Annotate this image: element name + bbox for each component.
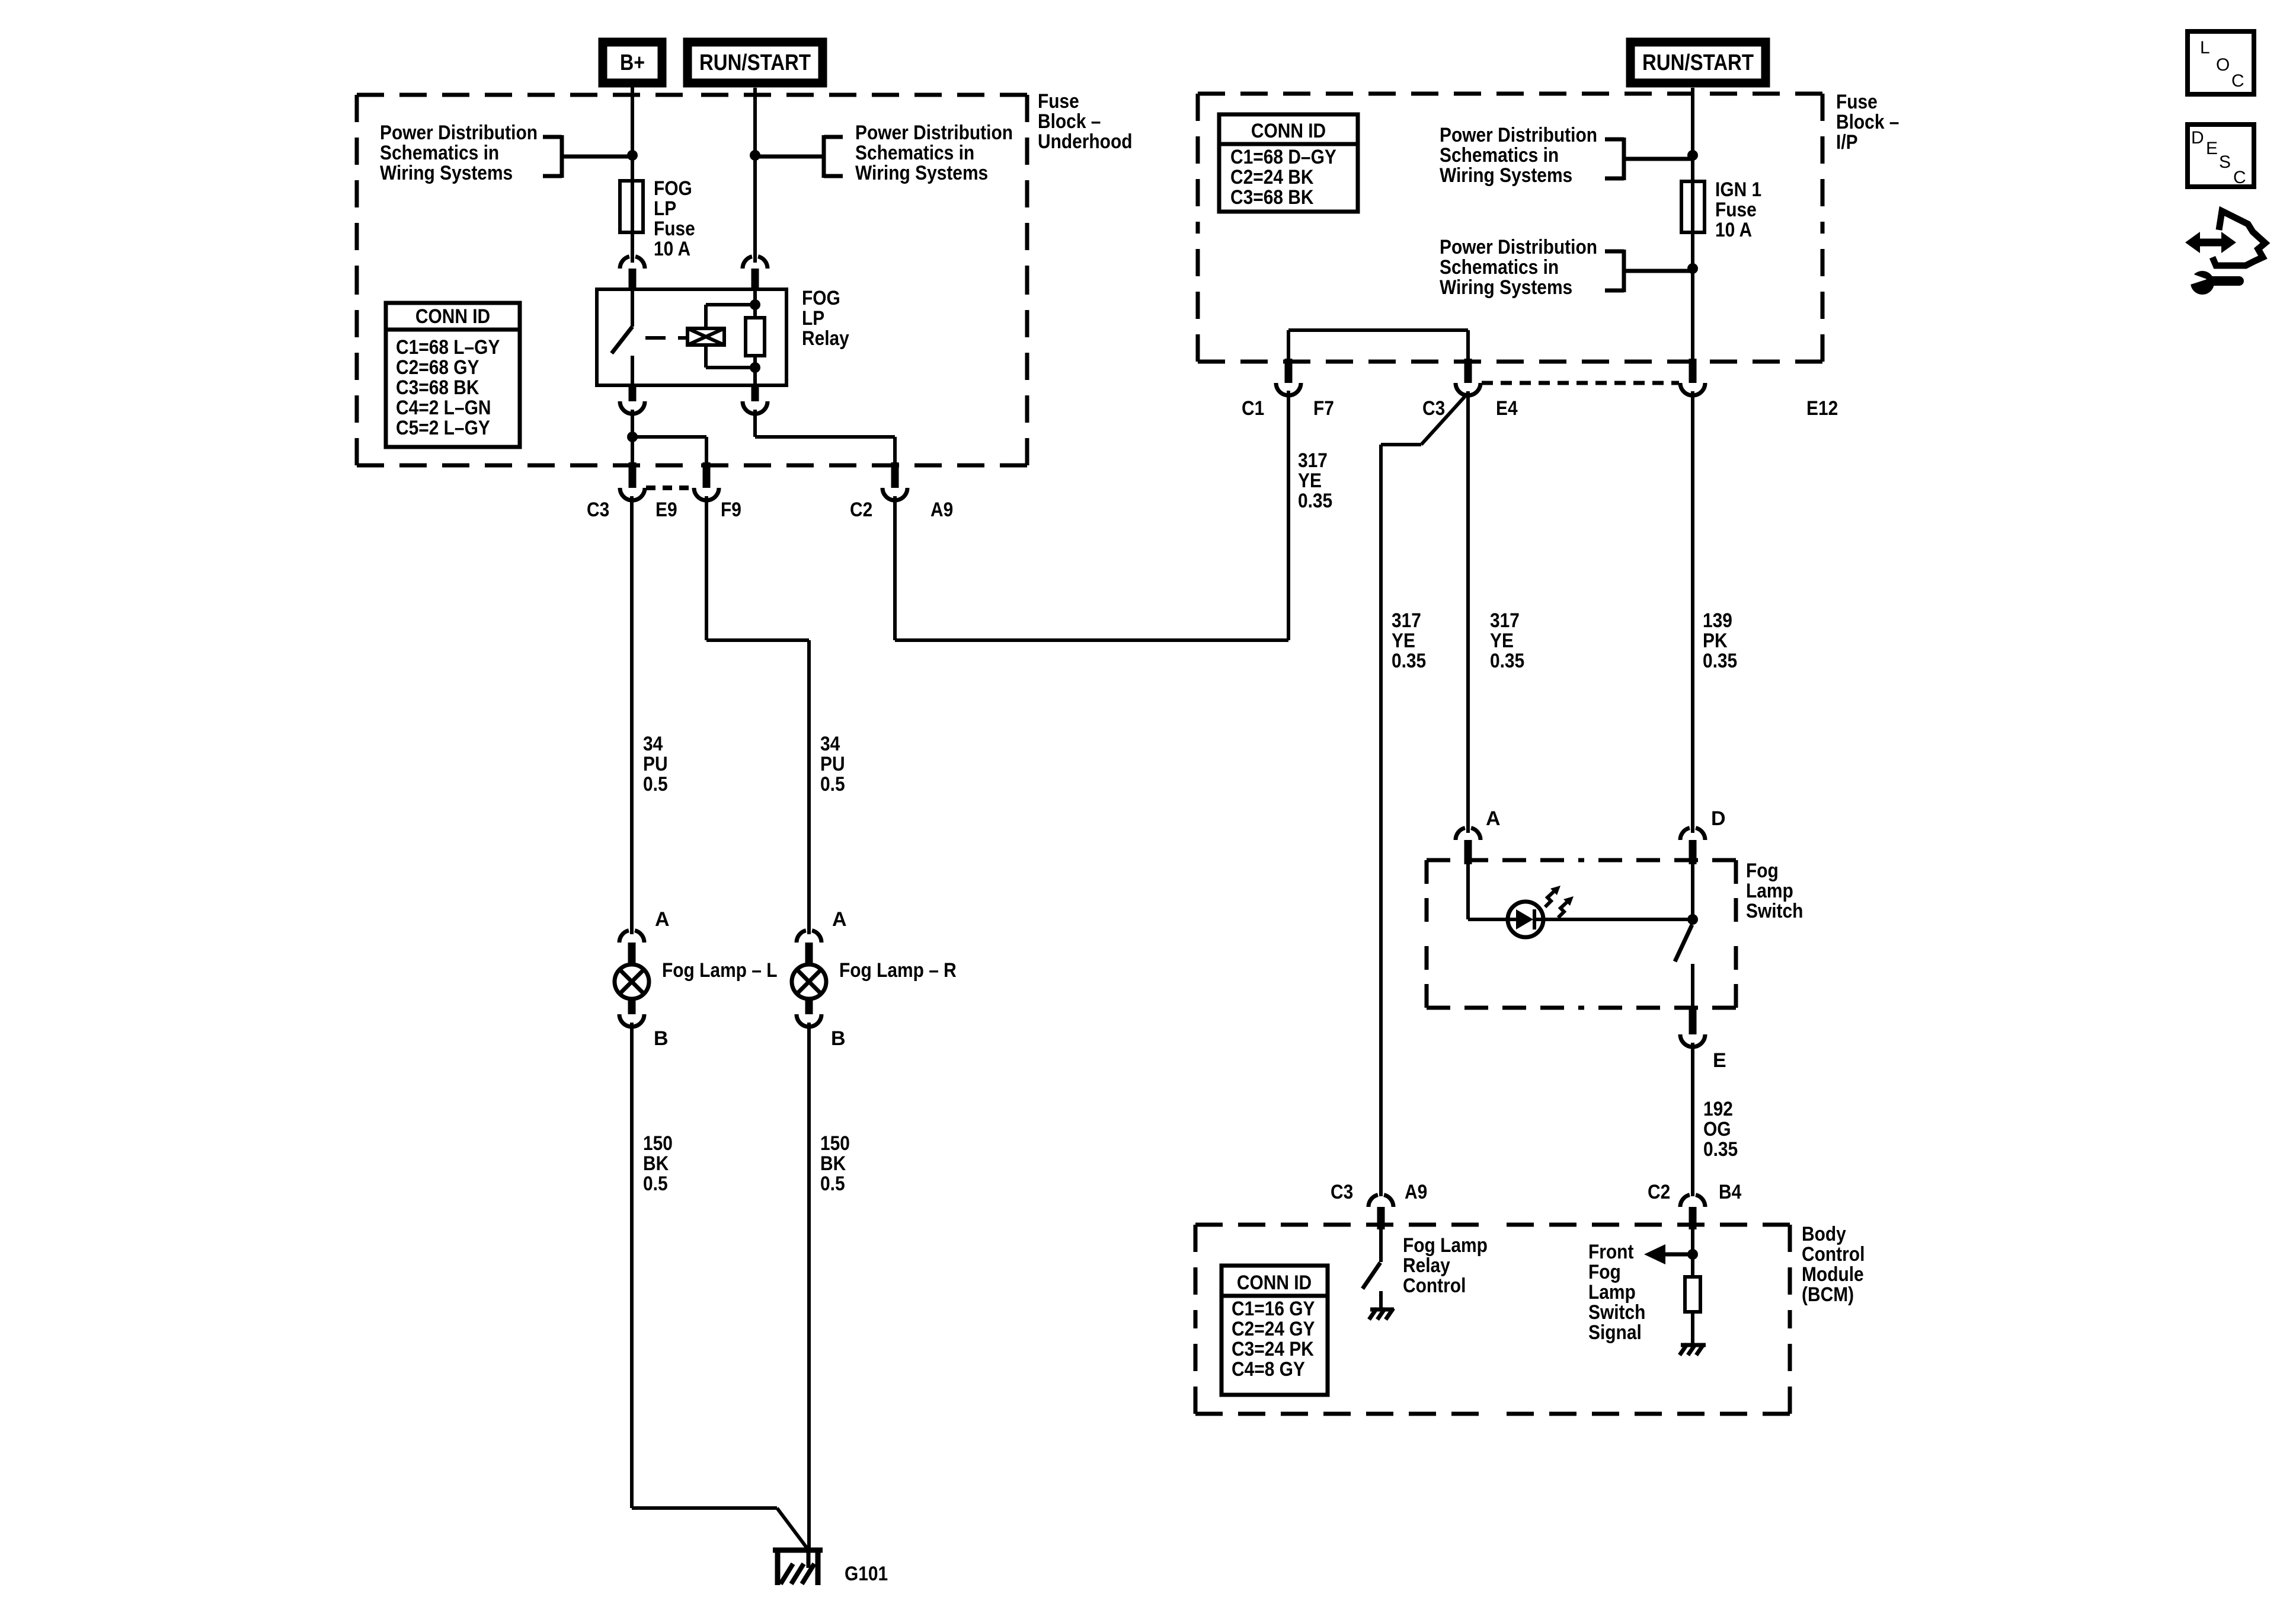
svg-text:C4=8 GY: C4=8 GY (1232, 1358, 1305, 1381)
connector C3 cavity E9 (underhood exit) (620, 462, 645, 500)
body control module BCM (dashed outline) (1195, 1225, 1790, 1414)
wire: relay output to C3/E9 exit with branch (631, 410, 634, 462)
node: switch junction (1687, 914, 1698, 925)
svg-text:150: 150 (820, 1132, 850, 1155)
svg-text:C4=2 L–GN: C4=2 L–GN (396, 397, 491, 419)
label: Fog Lamp - R (839, 959, 957, 982)
label: Front Fog Lamp Switch Signal (1588, 1241, 1645, 1344)
svg-text:Module: Module (1802, 1263, 1864, 1286)
wire 150 BK 0.5 from Fog Lamp L to ground (632, 1023, 807, 1548)
svg-text:F7: F7 (1313, 397, 1334, 420)
svg-text:Fuse: Fuse (1038, 90, 1079, 113)
connector pair: relay right output (743, 385, 768, 414)
label: Fog Lamp Switch (1746, 860, 1803, 922)
svg-text:C3: C3 (1331, 1181, 1353, 1203)
svg-text:LP: LP (654, 197, 676, 220)
svg-text:E4: E4 (1496, 397, 1518, 420)
reference callout: Power Distribution Schematics in Wiring Systems (IGN feed above fuse) (1440, 124, 1693, 187)
svg-text:CONN ID: CONN ID (1251, 120, 1326, 142)
svg-text:F9: F9 (721, 499, 741, 521)
fog lamp switch (dashed outline) (1427, 860, 1736, 1008)
labels: C3 A9 C2 B4 (1331, 1181, 1741, 1203)
CONN ID table (I/P fuse block) (1219, 114, 1358, 212)
dashed tie between E9 and F9 connectors (646, 485, 693, 490)
svg-text:A: A (1486, 807, 1501, 830)
wire 317 YE 0.35: relay control C2/A9 over to fuse block I/P C1/F7 (895, 391, 1288, 640)
svg-text:139: 139 (1703, 609, 1732, 632)
CONN ID table (underhood fuse block) (386, 303, 520, 447)
connector pin A of Fog Lamp R (797, 908, 847, 965)
svg-text:PK: PK (1703, 630, 1728, 652)
svg-text:10 A: 10 A (1715, 219, 1752, 241)
relay internal resistor (746, 287, 765, 387)
connector pair: relay left output (620, 385, 645, 414)
connector C2 cavity A9 (underhood exit) (882, 462, 907, 500)
svg-text:YE: YE (1392, 630, 1415, 652)
svg-text:Wiring Systems: Wiring Systems (1440, 276, 1572, 299)
connector pin B of Fog Lamp L (619, 999, 669, 1050)
svg-text:Fuse: Fuse (654, 218, 695, 240)
relay switch contact (612, 287, 632, 387)
svg-text:Switch: Switch (1746, 900, 1803, 922)
svg-text:C2: C2 (850, 499, 872, 521)
svg-text:RUN/START: RUN/START (1642, 50, 1754, 75)
connector pin A of Fog Lamp L (619, 908, 670, 965)
wire: callout tap above fuse (1624, 157, 1693, 161)
BCM fog lamp relay control switch (1363, 1229, 1381, 1309)
svg-text:PU: PU (643, 753, 668, 775)
svg-text:Schematics in: Schematics in (1440, 256, 1559, 279)
svg-text:34: 34 (820, 733, 840, 755)
resistor (BCM pull-down) (1685, 1277, 1700, 1343)
svg-text:BK: BK (820, 1152, 846, 1175)
svg-text:Fog Lamp – L: Fog Lamp – L (662, 959, 778, 982)
relay coil (box with X) (687, 328, 724, 345)
lamp Fog Lamp - R (792, 964, 826, 999)
svg-text:C5=2 L–GY: C5=2 L–GY (396, 417, 490, 439)
svg-text:0.5: 0.5 (643, 1173, 668, 1195)
svg-text:C1=16 GY: C1=16 GY (1232, 1298, 1315, 1320)
svg-text:LP: LP (802, 307, 824, 330)
svg-text:0.5: 0.5 (643, 773, 668, 796)
svg-text:150: 150 (643, 1132, 673, 1155)
connector pair: RUN/START into relay (right pin) (743, 257, 768, 290)
svg-text:Power Distribution: Power Distribution (855, 122, 1013, 144)
svg-text:Lamp: Lamp (1588, 1281, 1636, 1304)
svg-text:0.35: 0.35 (1392, 650, 1426, 672)
svg-text:Wiring Systems: Wiring Systems (1440, 164, 1572, 187)
LED indicator in switch (1508, 886, 1574, 937)
label: Fuse Block - Underhood (1038, 90, 1133, 153)
connector pin E of fog lamp switch (1680, 1008, 1726, 1072)
svg-text:Power Distribution: Power Distribution (1440, 236, 1597, 258)
svg-text:0.5: 0.5 (820, 773, 845, 796)
relay coil parallel loop (706, 305, 755, 368)
wire 150 BK 0.5 from Fog Lamp R to ground (807, 1023, 811, 1548)
label: FOG LP Fuse 10 A (654, 177, 695, 260)
node: RUN/START I/P feed junction (1687, 150, 1698, 161)
switch internal wiring D side (1542, 864, 1693, 919)
svg-text:Fuse: Fuse (1715, 199, 1757, 221)
ground (BCM signal pull-down) (1680, 1344, 1706, 1355)
svg-text:Lamp: Lamp (1746, 880, 1793, 902)
label: 317 YE 0.35 (to switch illumination) (1490, 609, 1524, 672)
svg-text:10 A: 10 A (654, 238, 690, 260)
svg-text:C3: C3 (587, 499, 609, 521)
svg-text:A9: A9 (930, 499, 953, 521)
svg-text:Fog Lamp – R: Fog Lamp – R (839, 959, 957, 982)
svg-text:C: C (2233, 168, 2246, 187)
ground G101 (773, 1548, 888, 1585)
svg-text:192: 192 (1703, 1098, 1733, 1120)
svg-text:C2=24 BK: C2=24 BK (1230, 166, 1314, 189)
connector C2 cavity B4 (BCM input) (1680, 1195, 1705, 1229)
wire: relay control output to C2/A9 exit (755, 410, 895, 462)
svg-text:G101: G101 (845, 1563, 888, 1585)
svg-text:317: 317 (1392, 609, 1421, 632)
svg-text:C1: C1 (1242, 397, 1264, 420)
LED emission arrows (1545, 889, 1556, 907)
svg-text:0.35: 0.35 (1490, 650, 1524, 672)
wire: callout tap to RUN/START wire (755, 155, 824, 159)
svg-text:S: S (2219, 152, 2231, 172)
svg-text:E12: E12 (1806, 397, 1838, 420)
svg-text:Wiring Systems: Wiring Systems (855, 162, 988, 184)
dashed tie between E4 and E12 connectors (1482, 381, 1679, 385)
svg-text:Control: Control (1403, 1274, 1466, 1297)
ground (BCM relay control) (1369, 1308, 1394, 1320)
BCM front fog lamp switch signal input (1691, 1229, 1694, 1275)
label: 150 BK 0.5 (right) (820, 1132, 850, 1195)
wire: callout tap below fuse (1624, 269, 1693, 273)
wire 317 YE 0.35: E4 down to fog lamp switch A (1466, 391, 1470, 833)
wire 192 OG 0.35: switch E down to BCM B4 (1691, 1043, 1694, 1196)
label: Fog Lamp Relay Control (1403, 1234, 1488, 1297)
label: 317 YE 0.35 (to fog lamp relay control) (1392, 609, 1426, 672)
svg-text:C: C (2231, 71, 2244, 91)
svg-text:Block –: Block – (1836, 111, 1899, 133)
svg-text:IGN 1: IGN 1 (1715, 178, 1761, 201)
CONN ID table (BCM) (1221, 1266, 1328, 1395)
relay FOG LP: body (597, 289, 786, 385)
DESC reference box (2188, 124, 2254, 187)
reference callout: Power Distribution Schematics in Wiring Systems (B+ feed) (380, 122, 632, 184)
svg-text:FOG: FOG (654, 177, 692, 200)
label: 139 PK 0.35 (1703, 609, 1737, 672)
svg-text:I/P: I/P (1836, 131, 1858, 154)
svg-text:Schematics in: Schematics in (380, 142, 499, 164)
svg-text:C3=68 BK: C3=68 BK (1230, 186, 1314, 209)
svg-text:B+: B+ (620, 50, 645, 75)
connector pin A of fog lamp switch (1456, 807, 1501, 864)
svg-text:Signal: Signal (1588, 1321, 1642, 1344)
svg-text:D: D (2191, 128, 2204, 148)
label: 34 PU 0.5 (left) (643, 733, 668, 796)
node: relay coil bottom junction (750, 362, 760, 373)
label: 34 PU 0.5 (right) (820, 733, 845, 796)
connector cavity F9 (underhood exit) (694, 462, 719, 500)
svg-text:Relay: Relay (1403, 1254, 1450, 1277)
wire: callout tap to B+ wire (562, 155, 632, 159)
wire 317 YE 0.35: E4 branch down to BCM A9 (1381, 393, 1468, 1196)
label: 317 YE 0.35 (relay control run) (1298, 449, 1332, 512)
svg-text:Control: Control (1802, 1243, 1865, 1266)
connector pin D of fog lamp switch (1680, 807, 1726, 864)
fuse block underhood (dashed outline) (357, 95, 1027, 465)
svg-text:E: E (1713, 1049, 1726, 1072)
power terminal RUN/START (I/P) (1630, 42, 1766, 83)
svg-text:OG: OG (1703, 1118, 1731, 1141)
svg-text:317: 317 (1298, 449, 1328, 472)
svg-text:Fuse: Fuse (1836, 91, 1878, 113)
svg-text:Power Distribution: Power Distribution (380, 122, 538, 144)
node: B+ feed junction (627, 150, 638, 161)
node: RUN/START feed junction (750, 150, 760, 161)
connector cavity E12 (I/P exit) (1680, 359, 1705, 395)
svg-text:Fog: Fog (1588, 1261, 1621, 1283)
fuse FOG LP 10 A (620, 181, 643, 232)
svg-text:(BCM): (BCM) (1802, 1283, 1854, 1306)
svg-text:C3=24 PK: C3=24 PK (1232, 1338, 1314, 1360)
svg-text:C3: C3 (1422, 397, 1445, 420)
wire: RUN/START terminal down to relay connector (753, 88, 757, 263)
svg-text:Schematics in: Schematics in (1440, 144, 1559, 167)
svg-text:PU: PU (820, 753, 845, 775)
reference callout: Power Distribution Schematics in Wiring Systems (IGN feed below fuse) (1440, 236, 1693, 299)
svg-text:Front: Front (1588, 1241, 1633, 1263)
label: Fuse Block - I/P (1836, 91, 1899, 154)
svg-text:C2: C2 (1648, 1181, 1670, 1203)
wire: RUN/START (I/P) down through IGN 1 fuse to E12 exit (1691, 88, 1694, 359)
svg-text:317: 317 (1490, 609, 1520, 632)
node: relay coil top junction (750, 299, 760, 310)
svg-text:Body: Body (1802, 1223, 1846, 1245)
fuse block I/P (dashed outline) (1198, 94, 1822, 362)
svg-text:Fog: Fog (1746, 860, 1779, 882)
labels: C3 E9 F9 C2 A9 (587, 499, 953, 521)
lamp Fog Lamp - L (615, 964, 649, 999)
svg-text:B: B (831, 1027, 846, 1050)
svg-text:Block –: Block – (1038, 110, 1101, 133)
svg-text:E9: E9 (655, 499, 677, 521)
wire 139 PK 0.35: E12 down to fog lamp switch D (1691, 391, 1694, 833)
svg-text:C2=68 GY: C2=68 GY (396, 356, 479, 379)
svg-text:B: B (654, 1027, 669, 1050)
svg-text:A: A (832, 908, 847, 931)
svg-text:C1=68 D–GY: C1=68 D–GY (1230, 146, 1336, 168)
svg-text:E: E (2206, 139, 2218, 158)
switch contact blade (1675, 925, 1693, 1008)
svg-text:BK: BK (643, 1152, 669, 1175)
node: IGN 1 output junction (1687, 263, 1698, 274)
switch internal wiring to LED (1468, 864, 1510, 919)
relay control dashed link (645, 336, 686, 340)
navigation icon: double arrow, pointer outline and wrench (2185, 211, 2265, 295)
connector pair: fuse output into relay (left pin) (620, 257, 645, 290)
svg-text:D: D (1711, 807, 1726, 830)
wire 34 PU 0.5 to Fog Lamp R (jog) (706, 496, 809, 934)
LOC reference box (2188, 31, 2254, 94)
svg-text:C3=68 BK: C3=68 BK (396, 376, 479, 399)
svg-text:A: A (655, 908, 670, 931)
svg-text:0.35: 0.35 (1298, 490, 1332, 512)
svg-text:Relay: Relay (802, 327, 849, 350)
signal arrow into BCM logic (1644, 1244, 1693, 1264)
svg-text:CONN ID: CONN ID (415, 305, 490, 328)
svg-text:CONN ID: CONN ID (1237, 1272, 1312, 1294)
fuse IGN 1 10 A (1681, 181, 1705, 232)
wire: branch to F9 exit (632, 437, 706, 462)
svg-text:Schematics in: Schematics in (855, 142, 974, 164)
connector C1 cavity F7 (I/P exit) (1276, 359, 1301, 395)
node: signal junction (1687, 1249, 1698, 1260)
connector C3 cavity E4 (I/P exit) (1456, 359, 1480, 395)
svg-text:B4: B4 (1719, 1181, 1741, 1203)
svg-text:C2=24 GY: C2=24 GY (1232, 1318, 1315, 1340)
svg-text:Power Distribution: Power Distribution (1440, 124, 1597, 146)
svg-text:Fog Lamp: Fog Lamp (1403, 1234, 1488, 1257)
svg-text:O: O (2216, 55, 2230, 75)
svg-text:L: L (2200, 38, 2210, 57)
svg-text:FOG: FOG (802, 287, 840, 309)
svg-text:RUN/START: RUN/START (699, 50, 811, 75)
wire 34 PU 0.5 to Fog Lamp L (630, 496, 634, 934)
svg-text:Underhood: Underhood (1038, 130, 1133, 153)
connector C3 cavity A9 (BCM input) (1368, 1195, 1393, 1229)
svg-text:YE: YE (1490, 630, 1514, 652)
svg-text:A9: A9 (1405, 1181, 1427, 1203)
svg-text:0.35: 0.35 (1703, 650, 1737, 672)
labels: C1 F7 C3 E4 E12 (1242, 397, 1838, 420)
reference callout: Power Distribution Schematics in Wiring Systems (RUN/START feed) (755, 122, 1013, 184)
label: 150 BK 0.5 (left) (643, 1132, 673, 1195)
svg-text:0.35: 0.35 (1703, 1138, 1738, 1161)
label: Fog Lamp - L (662, 959, 778, 982)
connector pin B of Fog Lamp R (797, 999, 846, 1050)
label: IGN 1 Fuse 10 A (1715, 178, 1761, 241)
node: lamp feed junction (627, 432, 638, 442)
wire: B+ terminal down through FOG LP fuse to relay connector (631, 87, 634, 263)
svg-text:C1=68 L–GY: C1=68 L–GY (396, 336, 500, 359)
svg-text:Switch: Switch (1588, 1301, 1645, 1324)
label: FOG LP Relay (802, 287, 849, 350)
svg-text:34: 34 (643, 733, 663, 755)
label: Body Control Module (BCM) (1802, 1223, 1865, 1306)
svg-text:Wiring Systems: Wiring Systems (380, 162, 513, 184)
wire: fuse block internal jumper C1/F7 to C3/E4 (1288, 330, 1468, 359)
power terminal B+ (603, 42, 662, 83)
svg-text:YE: YE (1298, 469, 1322, 492)
label: 192 OG 0.35 (1703, 1098, 1738, 1161)
power terminal RUN/START (underhood) (687, 42, 823, 83)
svg-text:0.5: 0.5 (820, 1173, 845, 1195)
